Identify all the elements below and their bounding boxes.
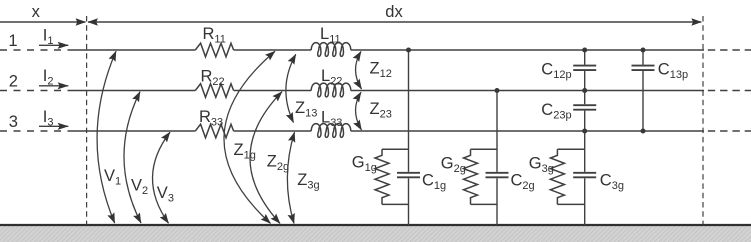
dimension line dx — [88, 21, 701, 23]
node dot conductor3/C23p — [582, 129, 587, 134]
conductor 2 wire segment R22 to L22 — [234, 90, 312, 92]
inductor L11 — [311, 43, 351, 57]
voltage arrow V1 — [97, 51, 116, 223]
mutual impedance arrow Z23 — [356, 92, 362, 130]
svg-text:Z1g: Z1g — [234, 141, 256, 162]
dimension line x — [0, 21, 86, 23]
capacitor C13p — [632, 66, 655, 71]
svg-text:R22: R22 — [201, 68, 225, 89]
resistor R33 — [195, 124, 233, 138]
conductor 3 dashed lead-in wire — [0, 130, 65, 132]
conductor 1 wire segment R11 to L11 — [234, 49, 312, 51]
conductor 2 dashed wire right — [708, 90, 751, 92]
conductor 2 wire segment L22 to right boundary — [351, 90, 704, 92]
svg-text:C12p: C12p — [541, 61, 571, 82]
capacitor C23p — [573, 105, 596, 110]
svg-text:C3g: C3g — [600, 172, 624, 193]
boundary dashed line at x+dx (right) — [702, 16, 704, 225]
ground plane hatch — [0, 226, 751, 242]
svg-text:R11: R11 — [203, 25, 226, 46]
svg-text:R33: R33 — [199, 108, 223, 129]
node dot conductor1/branch1 — [406, 48, 411, 53]
conductor 3 wire segment R33 to L33 — [234, 130, 312, 132]
boundary dashed line at x (left) — [86, 16, 88, 225]
conductance G2g — [464, 149, 498, 204]
svg-text:C2g: C2g — [511, 171, 535, 192]
current arrow I2 — [39, 85, 68, 87]
inductor L33 — [311, 124, 351, 138]
resistor R22 — [195, 84, 233, 98]
conductor 1 wire segment before R11 — [68, 49, 196, 51]
svg-text:G2g: G2g — [441, 155, 466, 176]
conductor 1 wire segment L11 to right boundary — [351, 49, 704, 51]
svg-text:V1: V1 — [104, 167, 121, 188]
svg-text:Z12: Z12 — [370, 60, 392, 81]
mutual impedance arrow Z12 — [356, 51, 362, 89]
svg-text:I2: I2 — [43, 67, 54, 88]
svg-text:C23p: C23p — [541, 101, 571, 122]
inductor L22 — [311, 83, 351, 97]
current arrow I3 — [39, 125, 68, 127]
impedance arrow Z2g — [250, 92, 282, 224]
conductor 2 wire segment before R22 — [68, 90, 196, 92]
svg-text:C1g: C1g — [422, 171, 446, 192]
svg-text:I1: I1 — [43, 27, 54, 48]
svg-text:Z3g: Z3g — [297, 171, 319, 192]
mutual impedance arrow Z13 — [286, 54, 296, 122]
capacitor C2g — [486, 173, 509, 178]
svg-text:Z13: Z13 — [295, 99, 317, 120]
voltage arrow V3 — [153, 132, 170, 223]
svg-text:3: 3 — [9, 113, 18, 131]
capacitor C12p — [573, 66, 596, 71]
svg-text:L22: L22 — [321, 67, 342, 88]
resistor R11 — [195, 43, 233, 57]
svg-text:G1g: G1g — [352, 154, 377, 175]
impedance arrow Z1g — [224, 51, 275, 223]
ground plane top line — [0, 224, 751, 226]
impedance arrow Z3g — [287, 132, 294, 223]
svg-text:V3: V3 — [157, 184, 174, 205]
current arrow I1 — [39, 44, 68, 46]
conductor 3 wire segment L33 to right boundary — [351, 130, 704, 132]
svg-text:1: 1 — [8, 32, 17, 50]
node dot conductor1/C12p — [582, 48, 587, 53]
capacitor C3g — [573, 173, 596, 178]
conductor 2 dashed lead-in wire — [0, 90, 65, 92]
svg-text:dx: dx — [385, 3, 403, 21]
svg-text:V2: V2 — [131, 176, 148, 197]
node dot conductor2/branch2 — [495, 88, 500, 93]
wire conductor1 through C12p C23p to ground branch 3 — [584, 50, 586, 225]
svg-text:C13p: C13p — [658, 61, 688, 82]
svg-text:2: 2 — [9, 73, 18, 91]
conductance G1g — [375, 149, 409, 204]
voltage arrow V2 — [124, 92, 141, 223]
svg-text:I3: I3 — [43, 108, 54, 129]
wire conductor1 to ground branch 1 — [408, 50, 410, 225]
conductance G3g — [550, 149, 584, 204]
node dot conductor2/C12p-C23p — [582, 88, 587, 93]
svg-text:Z23: Z23 — [370, 100, 392, 121]
wire conductor1 to conductor3 through C13p — [642, 50, 644, 131]
node dot conductor3/C13p — [641, 129, 646, 134]
svg-text:x: x — [32, 3, 41, 21]
conductor 1 dashed lead-in wire — [0, 49, 65, 51]
svg-text:L33: L33 — [321, 109, 342, 130]
conductor 3 dashed wire right — [708, 130, 751, 132]
capacitor C1g — [397, 173, 420, 178]
wire conductor2 to ground branch 2 — [496, 91, 498, 226]
svg-text:Z2g: Z2g — [267, 152, 289, 173]
svg-text:L11: L11 — [320, 25, 341, 46]
conductor 3 wire segment before R33 — [68, 130, 196, 132]
node dot conductor1/C13p — [641, 48, 646, 53]
conductor 1 dashed wire right — [708, 49, 751, 51]
